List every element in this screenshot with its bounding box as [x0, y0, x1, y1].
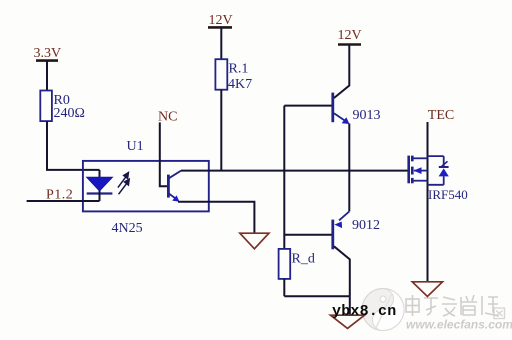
body diode cathode tick: [442, 161, 448, 166]
9012 collector: [334, 246, 350, 296]
body diode triangle: [439, 168, 449, 176]
wire R.1 to net: [220, 90, 222, 171]
svg-text:9013: 9013: [353, 108, 381, 123]
wire 12V to R.1: [220, 27, 222, 59]
wire R0 to LED anode: [47, 121, 100, 170]
svg-text:NC: NC: [158, 109, 177, 124]
svg-text:240Ω: 240Ω: [54, 106, 85, 121]
body diode lead bottom: [443, 176, 445, 184]
wire TEC / drain / source vertical: [427, 122, 429, 282]
power symbol 12V (center): [208, 13, 233, 28]
LED lead to P1.2: [99, 191, 101, 201]
wire 9012 base: [284, 234, 331, 236]
power symbol 3.3V: [34, 46, 62, 61]
wire emitters junction down: [348, 171, 350, 212]
ground (center): [331, 315, 365, 328]
svg-text:ybx8.cn: ybx8.cn: [332, 303, 396, 320]
LED cathode bar: [87, 192, 113, 194]
mosfet bottom stub: [412, 180, 427, 182]
9013 collector: [334, 45, 349, 98]
resistor R_d: [279, 249, 291, 279]
svg-text:9012: 9012: [352, 218, 380, 233]
9012 emitter: [339, 211, 349, 220]
svg-text:3.3V: 3.3V: [34, 46, 62, 61]
svg-text:IRF540: IRF540: [428, 187, 468, 202]
optocoupler U1 box: [83, 161, 209, 212]
svg-text:R_d: R_d: [292, 251, 315, 266]
ground (left): [240, 233, 269, 249]
phototransistor emitter: [169, 194, 177, 200]
wire NC to base: [160, 122, 168, 186]
resistor R.1: [215, 59, 227, 89]
wire main net (collector to gate): [181, 170, 409, 172]
body diode lead: [443, 156, 445, 167]
body diode cathode bar: [439, 166, 449, 168]
wire bases bus: [283, 106, 285, 249]
svg-text:12V: 12V: [338, 28, 362, 43]
mosfet channel segments: [411, 156, 414, 184]
watermark logo circle: [362, 289, 404, 331]
mosfet Q IRF540 gate bar: [407, 156, 410, 184]
svg-text:4N25: 4N25: [112, 221, 143, 236]
LED lead: [99, 170, 101, 178]
svg-text:www.elecfans.com: www.elecfans.com: [406, 318, 512, 332]
body diode branch bottom: [428, 184, 444, 186]
phototransistor base bar: [167, 175, 170, 198]
svg-text:12V: 12V: [209, 13, 233, 28]
wire bottom rail: [284, 295, 350, 297]
transistor 9013 base bar: [331, 93, 334, 123]
light arrow 1: [118, 173, 128, 188]
ground (right): [412, 282, 442, 297]
wire to center ground: [349, 296, 351, 315]
wire emitter out: [178, 202, 254, 233]
svg-text:TEC: TEC: [428, 108, 454, 123]
wire 9013 base: [284, 105, 331, 107]
watermark right edge mark: [494, 308, 505, 319]
body diode branch top: [428, 155, 444, 157]
watermark chinese text 电子发烧友: [406, 295, 499, 316]
9013 emitter: [334, 113, 345, 120]
wire 3.3V to R0: [46, 61, 48, 91]
transistor 9012 base bar: [331, 220, 334, 250]
svg-text:4K7: 4K7: [228, 77, 252, 92]
LED triangle: [87, 177, 113, 191]
resistor R0: [40, 91, 52, 122]
wire R_d bottom: [283, 279, 285, 296]
light arrow 2: [119, 179, 130, 194]
svg-text:P1.2: P1.2: [46, 188, 73, 203]
svg-text:R.1: R.1: [229, 61, 249, 76]
wire 9013 emitter down: [348, 124, 350, 171]
svg-text:U1: U1: [127, 139, 144, 154]
mosfet drain stub: [412, 157, 427, 159]
wire P1.2: [27, 200, 100, 202]
power symbol 12V (right): [338, 28, 362, 45]
phototransistor collector: [169, 171, 181, 179]
mosfet source stub with arrow: [414, 170, 428, 172]
